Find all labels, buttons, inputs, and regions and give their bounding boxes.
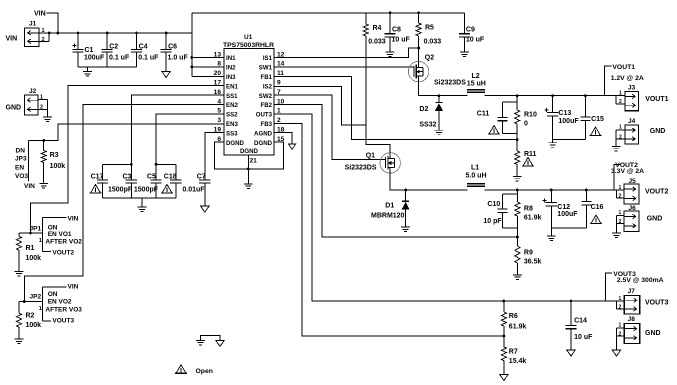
svg-text:VIN: VIN xyxy=(6,36,18,43)
ground (pin 21) xyxy=(244,183,253,185)
svg-text:VIN: VIN xyxy=(24,183,35,190)
capacitor C7 0.01uF xyxy=(199,179,210,181)
svg-text:1: 1 xyxy=(619,125,622,131)
wire SW2 to Q1 gate xyxy=(274,95,386,159)
svg-text:9: 9 xyxy=(277,80,281,87)
svg-text:100k: 100k xyxy=(26,322,42,329)
wire R4 to Q1 source xyxy=(366,36,390,153)
wire input cap ground bus xyxy=(78,66,137,68)
capacitor C1 100uF xyxy=(73,45,77,47)
wire Q2 drain to L2 node xyxy=(419,82,468,96)
wire FB3 to divider xyxy=(274,123,504,336)
svg-text:13: 13 xyxy=(214,51,222,58)
svg-text:3: 3 xyxy=(217,117,221,124)
note open symbol legend xyxy=(176,365,186,374)
capacitor C4 0.1uF xyxy=(136,33,138,49)
svg-text:VOUT3: VOUT3 xyxy=(52,317,74,324)
svg-text:VO3: VO3 xyxy=(15,173,28,180)
ground (SS caps) xyxy=(141,198,143,207)
svg-text:C9: C9 xyxy=(466,27,475,34)
wire C13/C15 ground bus xyxy=(553,138,586,140)
resistor R8 61.9k xyxy=(516,189,519,192)
svg-text:AFTER VO2: AFTER VO2 xyxy=(45,239,82,246)
capacitor C15 (open) xyxy=(584,94,587,97)
svg-text:C8: C8 xyxy=(392,27,401,34)
svg-text:R7: R7 xyxy=(509,349,518,356)
svg-text:AFTER VO3: AFTER VO3 xyxy=(45,306,82,313)
ground (J6) xyxy=(612,232,621,234)
svg-text:1: 1 xyxy=(619,210,622,216)
svg-text:10 uF: 10 uF xyxy=(392,37,411,44)
svg-text:R1: R1 xyxy=(26,245,35,252)
resistor R1 100k xyxy=(18,233,20,236)
svg-text:100uF: 100uF xyxy=(84,55,105,62)
svg-text:IS1: IS1 xyxy=(263,55,273,62)
wire DGND pin15 to pad xyxy=(248,142,283,169)
svg-text:J2: J2 xyxy=(29,88,37,95)
svg-text:21: 21 xyxy=(250,157,258,164)
svg-text:36.5k: 36.5k xyxy=(524,258,542,265)
capacitor C16 (open) xyxy=(585,189,588,192)
wire SW1 to Q2 gate xyxy=(274,66,414,68)
svg-text:SW2: SW2 xyxy=(259,93,273,100)
wire EN1 to JP1 xyxy=(31,86,225,233)
wire VIN label to rail xyxy=(47,13,58,33)
svg-text:D1: D1 xyxy=(385,203,394,210)
capacitor C9 10uF xyxy=(463,13,465,34)
net label VOUT1 xyxy=(605,66,612,96)
svg-text:VOUT3: VOUT3 xyxy=(645,299,668,306)
svg-text:1: 1 xyxy=(619,91,622,97)
svg-text:20: 20 xyxy=(214,70,222,77)
wire IN2 stub xyxy=(192,66,224,68)
resistor R10 0 xyxy=(516,94,519,97)
svg-text:GND: GND xyxy=(645,330,661,337)
svg-text:EN1: EN1 xyxy=(226,83,238,90)
capacitor C12 100uF xyxy=(550,189,553,192)
svg-text:VOUT2: VOUT2 xyxy=(645,188,668,195)
wire FB2 to divider xyxy=(274,105,517,238)
analog ground (C14) xyxy=(567,350,576,356)
svg-text:100uF: 100uF xyxy=(557,211,578,218)
net label VOUT3 xyxy=(606,273,613,301)
wire VIN riser to top rail and IC inputs xyxy=(191,13,193,77)
wire FB1 to divider xyxy=(274,76,517,139)
svg-text:C5: C5 xyxy=(147,173,156,180)
ground (R2) xyxy=(15,338,24,340)
svg-text:2: 2 xyxy=(42,37,45,43)
svg-text:2: 2 xyxy=(619,134,622,140)
svg-text:IS2: IS2 xyxy=(263,83,273,90)
wire SS1 to C3 xyxy=(131,95,224,180)
svg-text:FB2: FB2 xyxy=(260,102,272,109)
svg-text:EN3: EN3 xyxy=(226,121,238,128)
svg-text:10 pF: 10 pF xyxy=(483,218,502,225)
svg-text:IN2: IN2 xyxy=(226,65,236,72)
svg-text:1: 1 xyxy=(40,95,43,101)
wire VOUT2 node xyxy=(485,189,619,191)
svg-text:VIN: VIN xyxy=(68,284,79,291)
resistor R6 61.9k xyxy=(503,300,506,303)
svg-text:1500pF: 1500pF xyxy=(134,186,159,193)
capacitor C18 (open) xyxy=(156,163,176,165)
svg-text:1: 1 xyxy=(619,185,622,191)
wire OUT3 to VOUT3 node xyxy=(274,114,617,301)
resistor R7 15.4k xyxy=(503,336,505,347)
capacitor C14 10uF xyxy=(570,300,573,303)
resistor R4 0.033 current sense xyxy=(365,13,367,24)
ground (C13) xyxy=(552,139,554,142)
svg-text:R10: R10 xyxy=(524,112,537,119)
capacitor C3 1500pF xyxy=(126,179,137,181)
svg-text:1: 1 xyxy=(39,306,42,312)
svg-text:JP2: JP2 xyxy=(30,293,42,300)
capacitor C6 1.0uF xyxy=(165,33,167,49)
svg-text:DGND: DGND xyxy=(240,148,259,155)
svg-text:SS32: SS32 xyxy=(419,122,436,129)
svg-text:1: 1 xyxy=(39,238,42,244)
capacitor C8 10uF xyxy=(389,13,391,34)
ground (input caps) xyxy=(87,67,89,71)
svg-text:2: 2 xyxy=(619,99,622,105)
wire VIN rail xyxy=(49,32,192,34)
svg-text:FB3: FB3 xyxy=(260,121,272,128)
svg-text:J1: J1 xyxy=(29,21,37,28)
capacitor C2 0.1uF xyxy=(106,33,108,49)
svg-text:DGND: DGND xyxy=(254,140,273,147)
svg-text:IN1: IN1 xyxy=(226,55,236,62)
svg-text:GND: GND xyxy=(647,216,663,223)
wire SS3 to C7 xyxy=(205,133,224,180)
svg-text:GND: GND xyxy=(6,105,22,112)
svg-text:1: 1 xyxy=(42,28,45,34)
svg-text:VIN: VIN xyxy=(68,215,79,222)
svg-text:C10: C10 xyxy=(487,201,500,208)
svg-text:0.1 uF: 0.1 uF xyxy=(109,55,130,62)
svg-text:C1: C1 xyxy=(85,47,94,54)
svg-text:2: 2 xyxy=(619,305,622,311)
capacitor C17 (open) xyxy=(103,163,132,165)
svg-text:J4: J4 xyxy=(628,118,636,125)
svg-text:C4: C4 xyxy=(139,44,148,51)
wire AGND pin18 xyxy=(274,133,292,144)
svg-text:R11: R11 xyxy=(524,151,537,158)
svg-text:C15: C15 xyxy=(591,116,604,123)
svg-text:EN VO1: EN VO1 xyxy=(48,231,72,238)
wire C12/C16 ground bus xyxy=(551,227,586,229)
svg-text:JP1: JP1 xyxy=(30,226,42,233)
ground (J4) xyxy=(612,145,621,147)
svg-text:0: 0 xyxy=(524,121,528,128)
analog ground (J8) xyxy=(612,350,621,356)
diode D1 MBRM120 xyxy=(404,189,407,192)
svg-text:EN: EN xyxy=(15,164,24,171)
wire EN3 to JP3 xyxy=(28,124,224,141)
svg-text:J3: J3 xyxy=(628,84,636,91)
svg-text:C13: C13 xyxy=(558,110,571,117)
svg-text:DGND: DGND xyxy=(226,140,245,147)
svg-text:61.9k: 61.9k xyxy=(509,323,527,330)
resistor R5 0.033 current sense xyxy=(418,13,420,23)
svg-text:Si2323DS: Si2323DS xyxy=(434,79,466,86)
svg-text:C11: C11 xyxy=(477,111,490,118)
svg-text:C2: C2 xyxy=(109,44,118,51)
net label VOUT2 xyxy=(614,165,620,191)
svg-text:Si2323DS: Si2323DS xyxy=(345,165,377,172)
svg-text:0.01uF: 0.01uF xyxy=(182,186,205,193)
wire EN2 to JP2 xyxy=(24,105,224,302)
wire Q1 drain to L1 node xyxy=(390,173,467,190)
svg-text:VOUT1: VOUT1 xyxy=(612,64,635,71)
svg-text:R5: R5 xyxy=(425,25,434,32)
svg-text:R3: R3 xyxy=(50,152,59,159)
svg-text:C7: C7 xyxy=(197,173,206,180)
svg-text:0.033: 0.033 xyxy=(424,39,442,46)
wire IS1 to R5/Q2 source xyxy=(274,48,419,58)
svg-text:VOUT2: VOUT2 xyxy=(52,249,74,256)
svg-text:0.1 uF: 0.1 uF xyxy=(138,55,159,62)
svg-text:10 uF: 10 uF xyxy=(466,37,485,44)
svg-text:100k: 100k xyxy=(50,163,66,170)
svg-text:R8: R8 xyxy=(524,205,533,212)
svg-text:R9: R9 xyxy=(524,249,533,256)
svg-text:5.0 uH: 5.0 uH xyxy=(466,173,487,180)
svg-text:DN: DN xyxy=(16,148,26,155)
wire DGND pin6 to pad xyxy=(214,142,248,169)
svg-text:OUT3: OUT3 xyxy=(256,112,273,119)
resistor R9 36.5k xyxy=(515,246,520,263)
svg-text:C6: C6 xyxy=(168,44,177,51)
svg-text:J7: J7 xyxy=(628,288,636,295)
svg-text:0.033: 0.033 xyxy=(368,38,386,45)
svg-text:3.3V @ 2A: 3.3V @ 2A xyxy=(611,168,644,175)
wire IN1 stub xyxy=(192,57,224,59)
wire VOUT1 node xyxy=(485,95,617,97)
wire soft-start cap ground bus xyxy=(103,197,176,199)
svg-text:1.2V @ 2A: 1.2V @ 2A xyxy=(611,75,644,82)
svg-text:GND: GND xyxy=(650,128,666,135)
svg-text:2: 2 xyxy=(619,219,622,225)
ground (C12) xyxy=(550,228,552,236)
svg-text:L2: L2 xyxy=(472,73,480,80)
svg-text:Q1: Q1 xyxy=(366,153,375,160)
svg-text:C3: C3 xyxy=(123,173,132,180)
node FB1 junction xyxy=(516,138,519,141)
svg-text:1.0 uF: 1.0 uF xyxy=(168,55,189,62)
svg-text:15.4k: 15.4k xyxy=(509,358,527,365)
svg-text:100k: 100k xyxy=(26,255,42,262)
wire SS2 to C5 xyxy=(156,114,224,180)
ground (C9) xyxy=(460,51,469,53)
svg-text:D2: D2 xyxy=(419,106,428,113)
svg-text:SS1: SS1 xyxy=(226,93,238,100)
svg-text:Open: Open xyxy=(196,368,213,375)
svg-text:C12: C12 xyxy=(557,204,570,211)
capacitor C10 10pF (open) xyxy=(503,193,518,195)
svg-text:MBRM120: MBRM120 xyxy=(371,212,405,219)
wire IS2 to R4/Q1 source xyxy=(274,86,366,125)
node FB3 junction xyxy=(503,335,506,338)
svg-text:SW1: SW1 xyxy=(259,65,273,72)
svg-text:100uF: 100uF xyxy=(558,118,579,125)
analog ground (AGND) xyxy=(289,144,296,149)
svg-text:TPS75003RHLR: TPS75003RHLR xyxy=(223,42,274,49)
resistor R3 100k xyxy=(42,139,45,142)
node FB2 junction xyxy=(516,236,519,239)
svg-text:JP3: JP3 xyxy=(15,155,27,162)
svg-text:10 uF: 10 uF xyxy=(574,334,593,341)
analog ground (R7) xyxy=(500,374,509,380)
ground (C8) xyxy=(386,51,395,53)
analog ground (C7) xyxy=(201,206,210,212)
wire IN3 stub xyxy=(192,75,224,77)
svg-text:IN3: IN3 xyxy=(226,74,236,81)
wire R5 to Q2 source xyxy=(418,36,420,61)
ground tie DGND to AGND xyxy=(201,336,221,341)
resistor R2 100k xyxy=(18,302,20,314)
svg-text:C16: C16 xyxy=(591,204,604,211)
svg-text:R2: R2 xyxy=(26,313,35,320)
capacitor C11 (open) xyxy=(503,101,518,103)
svg-text:1: 1 xyxy=(619,323,622,329)
svg-text:SS2: SS2 xyxy=(226,112,238,119)
svg-text:2: 2 xyxy=(619,194,622,200)
svg-text:2: 2 xyxy=(40,105,43,111)
svg-text:VIN: VIN xyxy=(34,11,46,18)
svg-text:C17: C17 xyxy=(91,173,104,180)
ground (R9) xyxy=(513,274,522,276)
ground (R1) xyxy=(15,270,24,272)
svg-text:J8: J8 xyxy=(628,316,636,323)
capacitor C5 1500pF xyxy=(151,179,162,181)
svg-text:R6: R6 xyxy=(509,313,518,320)
svg-text:C18: C18 xyxy=(164,173,177,180)
svg-text:Q2: Q2 xyxy=(425,55,434,62)
capacitor C13 100uF xyxy=(551,94,554,97)
svg-text:EN2: EN2 xyxy=(226,102,238,109)
svg-text:FB1: FB1 xyxy=(260,74,272,81)
resistor R11 xyxy=(516,140,518,151)
svg-text:1: 1 xyxy=(619,296,622,302)
svg-text:SS3: SS3 xyxy=(226,130,238,137)
svg-text:8: 8 xyxy=(217,61,221,68)
ground (J2) xyxy=(43,116,52,118)
ground (R3) xyxy=(39,183,48,185)
svg-text:U1: U1 xyxy=(244,34,253,41)
ground (R11) xyxy=(513,175,522,177)
svg-text:L1: L1 xyxy=(471,165,479,172)
svg-text:EN VO2: EN VO2 xyxy=(48,299,72,306)
svg-text:C14: C14 xyxy=(574,318,587,325)
svg-text:15 uH: 15 uH xyxy=(467,81,486,88)
svg-text:ON: ON xyxy=(48,291,58,298)
svg-text:2.5V @ 300mA: 2.5V @ 300mA xyxy=(617,277,664,284)
svg-text:1500pF: 1500pF xyxy=(108,186,133,193)
analog ground (C6) xyxy=(162,71,171,77)
svg-text:VOUT1: VOUT1 xyxy=(645,96,668,103)
svg-text:2: 2 xyxy=(619,331,622,337)
svg-text:R4: R4 xyxy=(373,25,382,32)
svg-text:AGND: AGND xyxy=(254,130,273,137)
diode D2 SS32 xyxy=(438,94,441,97)
svg-text:61.9k: 61.9k xyxy=(524,215,542,222)
